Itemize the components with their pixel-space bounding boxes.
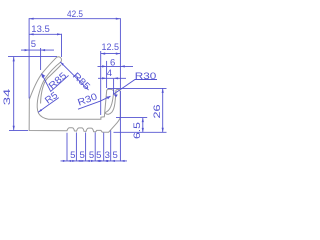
svg-text:6: 6 — [110, 58, 115, 69]
svg-text:6.5: 6.5 — [132, 122, 143, 139]
radius label R30 (fin flank) — [76, 91, 110, 109]
svg-text:5: 5 — [89, 150, 94, 161]
radius label R85 (lip underside, 45deg leader) — [60, 62, 92, 93]
svg-text:R30: R30 — [135, 71, 157, 82]
svg-text:4: 4 — [107, 68, 112, 79]
dimension 6 (fin to edge) — [98, 58, 134, 88]
svg-text:5: 5 — [80, 150, 85, 161]
svg-text:5: 5 — [113, 150, 118, 161]
part outline: fin head, fin wall, step, top surface, R5 fillet, lip underside and rounded tip cap — [37, 57, 114, 119]
svg-text:42.5: 42.5 — [67, 9, 83, 20]
dimension 34 (overall height, left) — [2, 56, 57, 130]
svg-text:13.5: 13.5 — [31, 24, 50, 35]
part edge: inner wedge face line — [41, 65, 61, 104]
svg-text:3: 3 — [105, 150, 110, 161]
svg-text:34: 34 — [2, 89, 13, 106]
svg-text:5: 5 — [96, 150, 101, 161]
dimension 42.5 (overall width) — [29, 9, 120, 98]
dimension chain 5 5 5 5 3 5 (bottom serrations) — [61, 91, 128, 162]
dimension 4 (fin width) — [98, 68, 126, 94]
svg-text:26: 26 — [152, 105, 163, 119]
dimension 5 (lip wall) — [21, 39, 54, 70]
dimension 26 (right side height) — [108, 88, 167, 132]
radius label R30 (pocket wall) — [113, 71, 157, 97]
part outline: gasket profile outer contour (lip outer curve, left edge, serrated bottom, foot, right edge) — [29, 58, 120, 133]
part edge: internal pocket curl — [105, 90, 115, 114]
radius label R5 (base fillet) — [38, 90, 60, 112]
svg-text:5: 5 — [70, 150, 75, 161]
svg-text:5: 5 — [31, 39, 36, 50]
dimension 13.5 (lip tip offset) — [29, 24, 61, 57]
dimension 6.5 (foot height) — [116, 118, 147, 139]
dimension 12.5 (fin offset) — [101, 42, 121, 115]
radius label R85 (lip outer curve) — [42, 70, 70, 91]
svg-text:12.5: 12.5 — [102, 42, 120, 53]
